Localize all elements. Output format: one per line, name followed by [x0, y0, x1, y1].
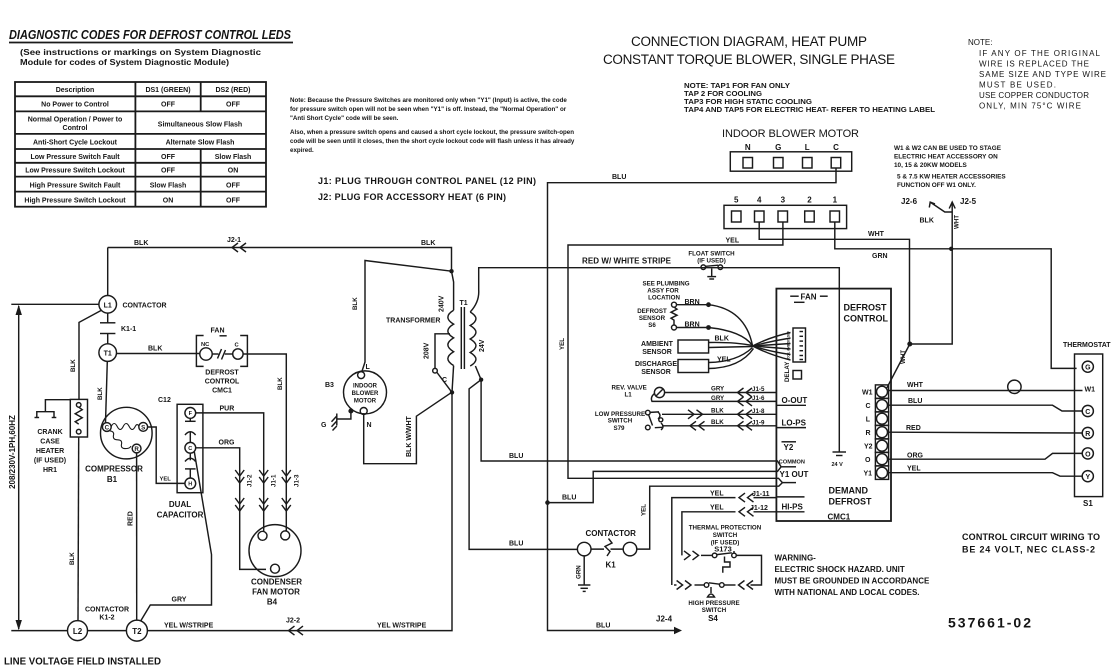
svg-text:1: 1	[833, 196, 838, 205]
svg-text:SEE PLUMBING: SEE PLUMBING	[642, 281, 689, 288]
label CRANK CASE HEATER (IF USED) HR1	[34, 429, 66, 474]
svg-text:BLK: BLK	[97, 387, 104, 400]
svg-text:BLK: BLK	[711, 419, 724, 426]
contactor L2	[68, 621, 88, 641]
connector chevrons J1-2 chain	[235, 470, 244, 511]
svg-text:DIAGNOSTIC CODES FOR DEFROST C: DIAGNOSTIC CODES FOR DEFROST CONTROL LED…	[9, 28, 292, 42]
svg-text:TAP 2 FOR COOLING: TAP 2 FOR COOLING	[684, 91, 763, 98]
label DISCHARGE SENSOR	[635, 361, 677, 376]
junction dot GRN WHT crossing	[949, 247, 953, 251]
wire T2 to YEL W/STRIPE line	[147, 394, 452, 631]
svg-text:CASE: CASE	[40, 439, 60, 446]
svg-text:S1: S1	[1083, 499, 1093, 508]
wire primary bottom to common junction	[437, 366, 454, 393]
defrost control board box	[776, 289, 891, 521]
svg-text:BLU: BLU	[509, 541, 523, 548]
svg-text:B3: B3	[325, 382, 334, 389]
wire L1 riser	[107, 248, 109, 296]
svg-text:J1-3: J1-3	[294, 474, 301, 487]
svg-text:T1: T1	[460, 300, 468, 307]
svg-text:CMC1: CMC1	[212, 388, 232, 395]
svg-text:S173: S173	[714, 545, 732, 554]
svg-text:CAPACITOR: CAPACITOR	[157, 511, 204, 520]
svg-text:IF ANY OF THE ORIGINAL: IF ANY OF THE ORIGINAL	[979, 49, 1101, 58]
wire bundle to board connector	[753, 333, 791, 361]
svg-text:Simultaneous Slow Flash: Simultaneous Slow Flash	[158, 122, 242, 129]
wire blower L riser BLK	[362, 261, 452, 372]
label CONTACTOR K1-2	[85, 607, 129, 622]
transformer primary coil	[448, 310, 454, 365]
wire solenoid loop GRY J1-6	[651, 394, 776, 406]
svg-text:DS2 (RED): DS2 (RED)	[215, 87, 250, 94]
svg-text:WHT: WHT	[954, 215, 961, 229]
svg-text:OFF: OFF	[226, 197, 241, 204]
svg-text:3: 3	[781, 196, 786, 205]
high pressure switch S4	[674, 581, 753, 598]
wire contactor coil ground GRN	[578, 556, 590, 592]
svg-text:24 V: 24 V	[832, 462, 844, 468]
label DEFROST SENSOR S6	[637, 308, 667, 329]
svg-text:TAP4 AND TAP5 FOR ELECTRIC HEA: TAP4 AND TAP5 FOR ELECTRIC HEAT- REFER T…	[684, 107, 936, 114]
svg-text:INDOOR BLOWER MOTOR: INDOOR BLOWER MOTOR	[722, 128, 859, 140]
wire BRN top to bundle	[677, 302, 753, 345]
svg-text:OFF: OFF	[161, 154, 176, 161]
svg-text:FUNCTION OFF W1 ONLY.: FUNCTION OFF W1 ONLY.	[897, 182, 976, 189]
svg-text:T1: T1	[104, 351, 112, 358]
svg-text:CONDENSER: CONDENSER	[251, 578, 302, 587]
float switch	[701, 265, 723, 279]
wire R RED to thermostat	[889, 431, 1083, 434]
svg-text:208/230V-1PH,60HZ: 208/230V-1PH,60HZ	[8, 415, 17, 489]
svg-text:Low Pressure Switch Lockout: Low Pressure Switch Lockout	[25, 168, 125, 175]
wire C terminal BLU down-left	[548, 168, 837, 503]
thermostat terminal letters	[1085, 365, 1096, 482]
svg-text:SWITCH: SWITCH	[608, 418, 633, 425]
wire capacitor C ORG to J1-2 chain	[196, 448, 266, 570]
note W1 W2 staging	[894, 145, 1006, 189]
svg-text:CONNECTION DIAGRAM, HEAT PUMP: CONNECTION DIAGRAM, HEAT PUMP	[631, 34, 867, 49]
svg-text:G: G	[1085, 365, 1091, 372]
svg-text:GRN: GRN	[576, 565, 583, 579]
svg-text:YEL: YEL	[907, 466, 921, 473]
wire LPS BLK J1-9	[662, 421, 776, 430]
connector chevrons J1-1 chain	[259, 470, 268, 511]
svg-text:TRANSFORMER: TRANSFORMER	[386, 318, 440, 325]
svg-text:COIL AMB DIS DEF: COIL AMB DIS DEF	[786, 331, 791, 359]
svg-text:LINE VOLTAGE FIELD INSTALLED: LINE VOLTAGE FIELD INSTALLED	[4, 657, 161, 668]
svg-text:CONTROL CIRCUIT WIRING TO: CONTROL CIRCUIT WIRING TO	[962, 532, 1100, 542]
svg-text:USE COPPER CONDUCTOR: USE COPPER CONDUCTOR	[979, 91, 1089, 100]
junction dot secondary common	[479, 378, 483, 382]
svg-text:J1-11: J1-11	[752, 491, 770, 498]
svg-text:W1: W1	[862, 390, 873, 397]
svg-text:BLK: BLK	[352, 297, 359, 310]
svg-text:J2-2: J2-2	[286, 618, 300, 625]
capacitor terminal letters	[188, 411, 192, 488]
wire BLU main down to J2-4	[548, 503, 683, 635]
svg-text:DEFROST: DEFROST	[829, 497, 873, 507]
junction dot transformer top	[449, 269, 453, 273]
svg-text:ON: ON	[163, 197, 174, 204]
defrost terminal strip boxes	[875, 385, 888, 480]
svg-text:GRN: GRN	[872, 253, 888, 260]
svg-text:RED W/ WHITE STRIPE: RED W/ WHITE STRIPE	[582, 257, 672, 266]
svg-text:G: G	[321, 422, 327, 429]
svg-text:(See instructions or markings: (See instructions or markings on System …	[20, 48, 262, 57]
svg-text:YEL: YEL	[160, 477, 172, 483]
note J1 J2 plug	[318, 176, 536, 202]
junction dot WHT node	[907, 342, 912, 347]
fan contact bracket left	[196, 336, 203, 367]
arrow J2-6	[929, 202, 952, 212]
svg-text:2: 2	[807, 196, 812, 205]
wires discharge to bundle	[709, 348, 754, 369]
condenser fan motor B4	[249, 525, 301, 577]
wires ambient to bundle	[709, 342, 753, 347]
svg-text:GRY: GRY	[711, 386, 725, 393]
connector chevrons J1-3 chain	[282, 470, 291, 511]
transformer core	[461, 307, 464, 369]
label DEFROST CONTROL	[844, 303, 889, 324]
label INDOOR BLOWER MOTOR inside	[352, 384, 379, 405]
wire blower N to transformer common BLK W/WHT	[364, 393, 451, 464]
svg-text:J1-8: J1-8	[752, 408, 765, 415]
svg-text:DEFROST: DEFROST	[205, 370, 239, 377]
svg-text:CONTROL: CONTROL	[844, 314, 889, 324]
svg-text:MOTOR: MOTOR	[354, 399, 377, 405]
junction dot transformer common	[450, 390, 454, 394]
low pressure switch S79 symbol	[646, 410, 664, 430]
svg-text:J2-5: J2-5	[960, 197, 977, 206]
label HI-PS with stubs	[776, 497, 804, 512]
svg-text:DEFROST: DEFROST	[844, 303, 888, 313]
svg-text:Description: Description	[56, 87, 95, 94]
thermostat box	[1075, 354, 1103, 497]
svg-text:J2: PLUG FOR ACCESSORY HEAT (6: J2: PLUG FOR ACCESSORY HEAT (6 PIN)	[318, 192, 506, 202]
svg-text:SENSOR: SENSOR	[642, 349, 672, 356]
svg-text:THERMAL PROTECTION: THERMAL PROTECTION	[689, 525, 762, 532]
svg-text:DELAY: DELAY	[784, 361, 791, 382]
svg-text:S: S	[141, 424, 145, 431]
wire capacitor C GRY to T2	[141, 452, 212, 622]
svg-text:expired.: expired.	[290, 147, 314, 154]
label DEMAND DEFROST	[829, 486, 873, 507]
svg-text:BLK W/WHT: BLK W/WHT	[406, 415, 413, 457]
svg-text:H: H	[188, 482, 192, 488]
svg-text:DS1 (GREEN): DS1 (GREEN)	[145, 87, 190, 94]
svg-text:TAP3 FOR HIGH STATIC COOLING: TAP3 FOR HIGH STATIC COOLING	[684, 99, 813, 106]
svg-text:BLK: BLK	[148, 346, 162, 353]
svg-text:DUAL: DUAL	[169, 500, 191, 509]
connector break J2-1	[232, 243, 246, 252]
svg-text:BLU: BLU	[908, 398, 922, 405]
label Y1 OUT with stub	[780, 470, 809, 483]
svg-text:"Anti Short Cycle" code will b: "Anti Short Cycle" code will be seen.	[290, 115, 399, 122]
svg-text:GRY: GRY	[711, 395, 725, 402]
wire W1 WHT to thermostat	[887, 380, 1082, 393]
svg-text:THERMOSTAT: THERMOSTAT	[1063, 342, 1111, 349]
note pressure switches monitored	[290, 97, 575, 154]
svg-text:ASSY FOR: ASSY FOR	[647, 288, 679, 295]
svg-text:Alternate Slow Flash: Alternate Slow Flash	[166, 140, 235, 147]
svg-text:ON: ON	[228, 168, 239, 175]
arrow J2-5 WHT riser	[910, 202, 956, 344]
table text	[24, 87, 251, 204]
wire K1-1 to T1	[107, 334, 109, 344]
svg-text:No Power to Control: No Power to Control	[41, 102, 109, 109]
harness connector box 5 4 3 2 1	[724, 205, 847, 228]
svg-text:K1-2: K1-2	[99, 615, 114, 622]
svg-text:FAN: FAN	[211, 328, 225, 335]
208V tap wire and terminal	[433, 334, 450, 373]
svg-text:208V: 208V	[424, 342, 431, 359]
delay component box	[793, 371, 802, 380]
capacitor plates C-H	[185, 453, 196, 478]
defrost sensor S6	[671, 302, 677, 330]
svg-text:BLU: BLU	[509, 453, 523, 460]
dimension line 208/230V	[11, 304, 99, 630]
svg-text:CONTACTOR: CONTACTOR	[85, 607, 129, 614]
label AMBIENT SENSOR	[641, 341, 674, 356]
svg-text:ELECTRIC HEAT ACCESSORY ON: ELECTRIC HEAT ACCESSORY ON	[894, 154, 998, 161]
note top right	[968, 38, 1106, 111]
svg-text:YEL W/STRIPE: YEL W/STRIPE	[377, 623, 427, 630]
svg-text:Normal Operation / Power to: Normal Operation / Power to	[28, 117, 123, 124]
svg-text:ELECTRIC SHOCK HAZARD. UNIT: ELECTRIC SHOCK HAZARD. UNIT	[775, 565, 905, 574]
capacitor plates F-C	[185, 418, 196, 442]
svg-text:C: C	[1085, 409, 1090, 416]
svg-text:BLK: BLK	[711, 408, 724, 415]
svg-text:ORG: ORG	[907, 453, 924, 460]
wire Y1 YEL to thermostat	[889, 473, 1083, 477]
wire C BLU to thermostat	[889, 405, 1083, 411]
svg-text:B1: B1	[107, 475, 118, 484]
compressor B1	[101, 407, 153, 459]
contactor L1	[99, 296, 117, 314]
label Y2 overline	[782, 442, 797, 452]
svg-text:YEL: YEL	[641, 504, 648, 516]
svg-text:WITH NATIONAL AND LOCAL CODES.: WITH NATIONAL AND LOCAL CODES.	[775, 588, 920, 597]
svg-text:L: L	[805, 143, 810, 152]
svg-text:SENSOR: SENSOR	[641, 369, 671, 376]
svg-text:BLK: BLK	[715, 336, 729, 343]
wire YEL J1-11 from thermal switch	[672, 493, 777, 585]
svg-text:Anti-Short Cycle Lockout: Anti-Short Cycle Lockout	[33, 140, 118, 147]
svg-text:code will be seen until it clo: code will be seen until it closes, then …	[290, 138, 575, 145]
svg-text:LO-PS: LO-PS	[782, 419, 807, 428]
svg-text:J2-6: J2-6	[901, 197, 918, 206]
labels 5 4 3 2 1	[734, 196, 838, 205]
indoor blower motor B3	[344, 371, 387, 415]
svg-text:LOCATION: LOCATION	[648, 295, 680, 302]
svg-text:AMBIENT: AMBIENT	[641, 341, 674, 348]
wire solenoid GRY J1-5	[665, 388, 777, 397]
svg-text:MUST BE USED.: MUST BE USED.	[979, 81, 1056, 90]
label SEE PLUMBING ASSY FOR LOCATION	[642, 281, 689, 302]
label DUAL CAPACITOR	[157, 500, 204, 520]
svg-text:YEL: YEL	[710, 505, 724, 512]
label CONTACTOR K1	[586, 529, 637, 570]
svg-text:for pressure switch open will: for pressure switch open will not be see…	[290, 106, 567, 113]
contactor coil K1	[577, 539, 636, 557]
svg-text:SWITCH: SWITCH	[702, 607, 727, 614]
svg-text:WARNING-: WARNING-	[775, 554, 817, 563]
wire T1 down to compressor C	[106, 361, 108, 422]
svg-text:T2: T2	[132, 627, 142, 636]
fan contact bracket right	[240, 336, 247, 367]
svg-text:WHT: WHT	[907, 382, 924, 389]
svg-text:DEMAND: DEMAND	[829, 486, 869, 496]
svg-text:BLK: BLK	[421, 240, 435, 247]
wire YEL J1-12 from thermal switch	[682, 507, 777, 555]
compressor winding C-S	[111, 424, 139, 430]
svg-text:O: O	[1085, 451, 1091, 458]
contact bars between NC and C	[212, 349, 233, 360]
svg-text:L1: L1	[104, 302, 112, 309]
svg-text:BLU: BLU	[562, 495, 576, 502]
svg-text:J2-4: J2-4	[656, 615, 673, 624]
wire BLU branch to COMMON arrow lower	[548, 467, 782, 503]
crank heater element symbol	[35, 400, 71, 418]
svg-text:L: L	[366, 364, 371, 371]
svg-text:J2-1: J2-1	[227, 237, 241, 244]
svg-text:N: N	[367, 422, 372, 429]
svg-text:J1-2: J1-2	[247, 474, 254, 487]
note tap list	[684, 83, 936, 114]
connector break J2-2	[289, 626, 304, 635]
svg-text:J1: PLUG THROUGH CONTROL PANEL: J1: PLUG THROUGH CONTROL PANEL (12 PIN)	[318, 176, 536, 186]
svg-text:K1-1: K1-1	[121, 326, 136, 333]
svg-text:Module for codes of System Dia: Module for codes of System Diagnostic Mo…	[20, 58, 229, 67]
svg-text:K1: K1	[606, 561, 617, 570]
board pin connector	[793, 328, 806, 362]
defrost terminal labels	[862, 390, 873, 478]
svg-text:R: R	[865, 430, 870, 437]
svg-text:High Pressure Switch Lockout: High Pressure Switch Lockout	[24, 197, 126, 204]
wire LPS BLK J1-8	[662, 410, 776, 419]
label FAN tab	[790, 293, 828, 303]
svg-text:FLOAT SWITCH: FLOAT SWITCH	[688, 251, 735, 258]
svg-text:R: R	[134, 446, 139, 453]
junction dot BLU main	[545, 500, 550, 505]
svg-text:RED: RED	[906, 425, 921, 432]
svg-text:COMPRESSOR: COMPRESSOR	[85, 465, 143, 474]
wire fan C to J1-3 chain	[243, 354, 286, 531]
svg-text:G: G	[775, 143, 781, 152]
label FAN with tick	[211, 328, 227, 336]
svg-text:High Pressure Switch Fault: High Pressure Switch Fault	[30, 182, 121, 189]
svg-text:C12: C12	[158, 397, 171, 404]
wire BLK top from L1 to transformer drop	[108, 248, 452, 272]
discharge sensor box	[678, 360, 709, 373]
svg-text:INDOOR: INDOOR	[353, 384, 378, 390]
svg-text:5: 5	[734, 196, 739, 205]
svg-text:CONTACTOR: CONTACTOR	[586, 529, 637, 538]
rev valve solenoid L1	[654, 387, 664, 397]
svg-text:J1-1: J1-1	[271, 474, 278, 487]
svg-text:B4: B4	[267, 598, 278, 607]
contact K1-1	[100, 323, 115, 334]
svg-text:W1 & W2 CAN BE USED TO STAGE: W1 & W2 CAN BE USED TO STAGE	[894, 145, 1002, 152]
svg-text:537661-02: 537661-02	[948, 615, 1031, 631]
label REV. VALVE L1	[612, 385, 647, 399]
svg-text:CMC1: CMC1	[828, 513, 851, 522]
svg-text:OFF: OFF	[161, 102, 176, 109]
svg-text:BLK: BLK	[277, 377, 284, 390]
svg-text:RED: RED	[128, 511, 135, 526]
svg-text:4: 4	[757, 196, 762, 205]
24V feed bar	[833, 452, 847, 456]
svg-text:HI-PS: HI-PS	[782, 503, 804, 512]
main title	[603, 34, 895, 67]
svg-text:DEFROST: DEFROST	[637, 308, 667, 315]
svg-text:BLU: BLU	[596, 623, 610, 630]
diagnostic table frame	[15, 82, 266, 207]
title DIAGNOSTIC CODES FOR DEFROST CONTROL LEDS	[9, 28, 293, 43]
wire terminal 4 WHT	[759, 222, 909, 344]
svg-text:R: R	[1085, 431, 1090, 438]
svg-text:ONLY, MIN 75°C WIRE: ONLY, MIN 75°C WIRE	[979, 102, 1081, 111]
svg-text:BLOWER: BLOWER	[352, 391, 379, 397]
compressor terminal letters	[105, 424, 146, 453]
thermal switch S173	[684, 551, 762, 585]
svg-text:J1-6: J1-6	[752, 395, 765, 402]
svg-text:WIRE IS REPLACED THE: WIRE IS REPLACED THE	[979, 60, 1089, 69]
svg-text:C: C	[188, 446, 192, 452]
wire secondary top RED W/ WHITE STRIPE to 24V feed	[470, 268, 839, 452]
label COMPRESSOR B1	[85, 465, 143, 485]
ground symbol blower motor	[332, 409, 353, 430]
label CONDENSER FAN MOTOR B4	[251, 578, 302, 607]
label LOW PRESSURE SWITCH S79	[595, 411, 645, 432]
compressor winding C-R	[110, 431, 132, 449]
svg-text:L: L	[866, 417, 871, 424]
svg-text:CONSTANT TORQUE BLOWER, SINGLE: CONSTANT TORQUE BLOWER, SINGLE PHASE	[603, 52, 895, 67]
svg-text:BLK: BLK	[920, 218, 934, 225]
svg-text:Y2: Y2	[864, 444, 873, 451]
svg-text:BLK: BLK	[70, 359, 77, 372]
svg-text:OFF: OFF	[161, 168, 176, 175]
label DEFROST CONTROL CMC1	[205, 370, 240, 395]
thermostat terminals	[1082, 361, 1093, 482]
svg-text:S4: S4	[708, 614, 718, 623]
svg-text:L2: L2	[73, 627, 83, 636]
contactor T2	[126, 620, 147, 641]
svg-text:(IF USED): (IF USED)	[697, 258, 726, 265]
svg-text:L1: L1	[625, 392, 633, 399]
svg-text:Slow Flash: Slow Flash	[150, 182, 187, 189]
label FLOAT SWITCH (IF USED)	[688, 251, 735, 265]
svg-text:S79: S79	[613, 425, 625, 432]
wire terminal 3 YEL to Y1 OUT	[568, 222, 783, 483]
svg-text:NOTE:: NOTE:	[968, 38, 992, 47]
svg-text:C: C	[865, 403, 870, 410]
wire compressor R down to T2	[136, 453, 138, 620]
svg-text:10, 15 & 20KW MODELS: 10, 15 & 20KW MODELS	[894, 162, 968, 169]
svg-text:CONTROL: CONTROL	[205, 379, 240, 386]
crank case heater resistor box HR1	[70, 399, 87, 437]
svg-text:DISCHARGE: DISCHARGE	[635, 361, 677, 368]
svg-text:COMMON: COMMON	[779, 460, 805, 466]
label LO-PS with stub	[776, 419, 806, 428]
svg-text:5 & 7.5 KW HEATER ACCESSORIES: 5 & 7.5 KW HEATER ACCESSORIES	[897, 174, 1006, 181]
fan C contact circle	[233, 349, 243, 359]
svg-text:240V: 240V	[439, 295, 446, 312]
svg-text:J1-12: J1-12	[750, 505, 768, 512]
svg-text:SWITCH: SWITCH	[713, 532, 738, 539]
svg-text:SAME SIZE AND TYPE WIRE: SAME SIZE AND TYPE WIRE	[979, 70, 1106, 79]
contactor terminal T1	[99, 344, 117, 362]
